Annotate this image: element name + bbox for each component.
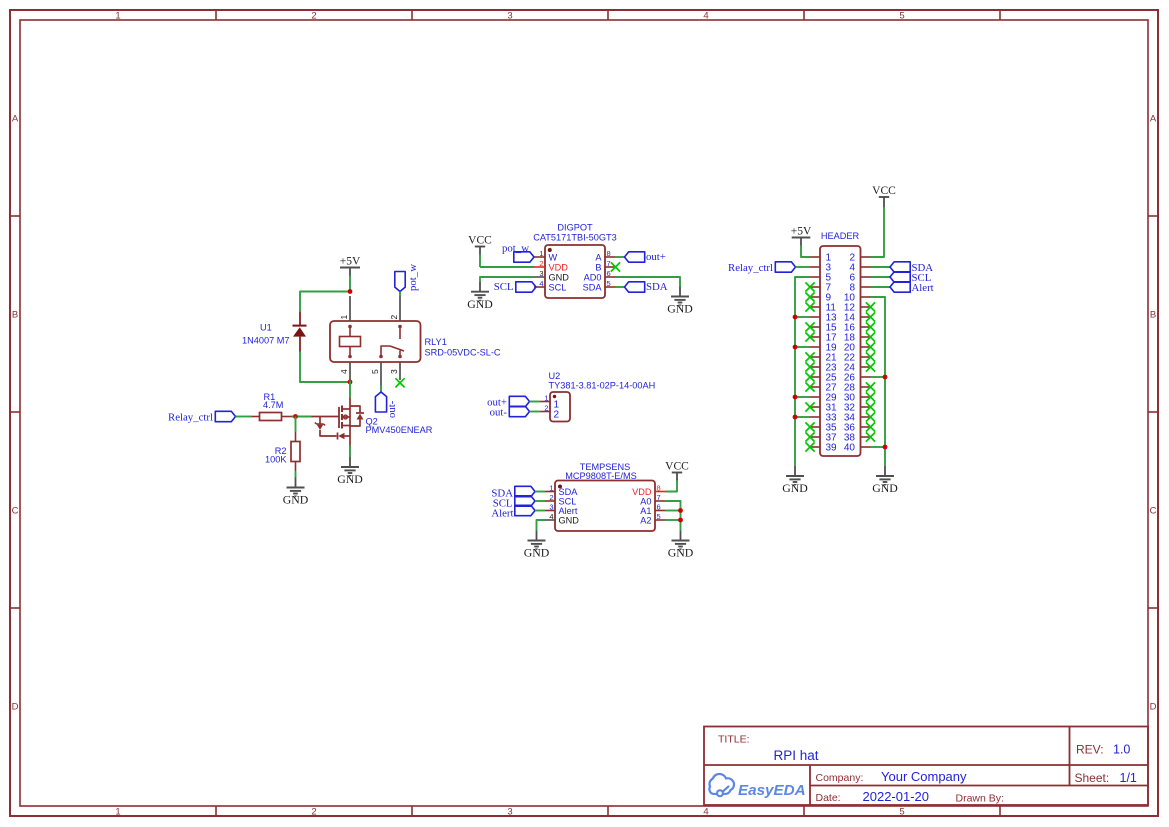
svg-text:VDD: VDD xyxy=(549,262,569,272)
svg-text:Alert: Alert xyxy=(912,282,934,294)
svg-text:4: 4 xyxy=(539,279,543,288)
svg-text:1N4007 M7: 1N4007 M7 xyxy=(242,336,290,346)
svg-text:A0: A0 xyxy=(640,496,651,506)
svg-text:SCL: SCL xyxy=(549,282,567,292)
svg-text:GND: GND xyxy=(549,272,570,282)
svg-text:5: 5 xyxy=(657,512,661,521)
svg-text:Your Company: Your Company xyxy=(881,769,967,784)
svg-text:1: 1 xyxy=(115,11,120,22)
svg-text:4: 4 xyxy=(703,807,708,818)
svg-text:39: 39 xyxy=(826,443,838,454)
svg-text:2: 2 xyxy=(544,404,548,413)
svg-text:W: W xyxy=(549,252,558,262)
svg-text:SRD-05VDC-SL-C: SRD-05VDC-SL-C xyxy=(425,347,501,357)
svg-text:C: C xyxy=(12,506,19,517)
svg-text:VCC: VCC xyxy=(468,235,492,247)
svg-text:1: 1 xyxy=(339,315,349,320)
svg-text:SCL: SCL xyxy=(494,281,514,293)
svg-text:SDA: SDA xyxy=(583,282,603,292)
svg-text:2: 2 xyxy=(311,11,316,22)
svg-text:D: D xyxy=(1150,702,1157,713)
svg-text:GND: GND xyxy=(782,481,808,495)
svg-text:DIGPOT: DIGPOT xyxy=(557,223,593,233)
svg-text:TY381-3.81-02P-14-00AH: TY381-3.81-02P-14-00AH xyxy=(549,381,656,391)
svg-text:Alert: Alert xyxy=(559,506,578,516)
svg-text:pot_w: pot_w xyxy=(502,242,529,254)
svg-text:GND: GND xyxy=(668,546,694,560)
svg-text:7: 7 xyxy=(657,493,661,502)
svg-text:GND: GND xyxy=(337,472,363,486)
svg-text:4: 4 xyxy=(549,512,553,521)
svg-text:HEADER: HEADER xyxy=(821,231,860,241)
svg-text:6: 6 xyxy=(657,503,661,512)
svg-text:3: 3 xyxy=(549,503,553,512)
svg-text:D: D xyxy=(12,702,19,713)
svg-text:4: 4 xyxy=(703,11,708,22)
svg-text:out-: out- xyxy=(386,400,398,418)
svg-text:EasyEDA: EasyEDA xyxy=(738,782,806,799)
svg-text:2: 2 xyxy=(311,807,316,818)
svg-text:Sheet:: Sheet: xyxy=(1075,771,1110,785)
svg-text:VDD: VDD xyxy=(632,487,652,497)
svg-text:A1: A1 xyxy=(640,506,651,516)
svg-text:1: 1 xyxy=(544,394,548,403)
svg-text:GND: GND xyxy=(283,493,309,507)
svg-text:40: 40 xyxy=(844,443,856,454)
svg-text:A: A xyxy=(1150,114,1157,125)
svg-text:A: A xyxy=(12,114,19,125)
svg-text:B: B xyxy=(595,262,601,272)
svg-text:GND: GND xyxy=(667,302,693,316)
svg-text:5: 5 xyxy=(607,279,611,288)
svg-text:A2: A2 xyxy=(640,515,651,525)
svg-text:SDA: SDA xyxy=(646,281,668,293)
svg-text:U1: U1 xyxy=(260,323,272,333)
svg-text:2022-01-20: 2022-01-20 xyxy=(863,789,930,804)
svg-text:GND: GND xyxy=(524,546,550,560)
svg-text:SDA: SDA xyxy=(559,487,579,497)
svg-text:8: 8 xyxy=(607,249,611,258)
svg-text:4: 4 xyxy=(339,369,349,374)
svg-text:Relay_ctrl: Relay_ctrl xyxy=(728,262,773,274)
svg-text:U2: U2 xyxy=(549,371,561,381)
svg-text:REV:: REV: xyxy=(1076,743,1104,757)
svg-text:1/1: 1/1 xyxy=(1120,771,1137,785)
svg-text:CAT5171TBI-50GT3: CAT5171TBI-50GT3 xyxy=(533,232,617,242)
svg-text:3: 3 xyxy=(507,11,512,22)
svg-text:5: 5 xyxy=(899,807,904,818)
svg-text:Company:: Company: xyxy=(816,772,864,784)
svg-text:VCC: VCC xyxy=(665,461,689,473)
svg-text:7: 7 xyxy=(607,259,611,268)
svg-text:1: 1 xyxy=(539,249,543,258)
svg-text:6: 6 xyxy=(607,269,611,278)
svg-text:2: 2 xyxy=(549,493,553,502)
svg-text:Alert: Alert xyxy=(491,508,513,520)
svg-text:MCP9808T-E/MS: MCP9808T-E/MS xyxy=(565,471,636,481)
svg-text:+5V: +5V xyxy=(791,226,812,238)
svg-text:Relay_ctrl: Relay_ctrl xyxy=(168,412,213,424)
svg-text:4.7M: 4.7M xyxy=(263,400,283,410)
svg-text:3: 3 xyxy=(389,369,399,374)
svg-text:RPI hat: RPI hat xyxy=(774,748,819,763)
svg-text:SCL: SCL xyxy=(559,496,577,506)
svg-text:Date:: Date: xyxy=(816,792,841,804)
svg-text:1: 1 xyxy=(115,807,120,818)
svg-text:GND: GND xyxy=(872,481,898,495)
svg-text:out+: out+ xyxy=(646,251,666,263)
svg-text:+5V: +5V xyxy=(340,256,361,268)
svg-text:100K: 100K xyxy=(265,455,287,465)
svg-text:C: C xyxy=(1150,506,1157,517)
svg-text:GND: GND xyxy=(467,297,493,311)
svg-text:A: A xyxy=(595,252,602,262)
svg-text:5: 5 xyxy=(370,369,380,374)
svg-text:1: 1 xyxy=(549,484,553,493)
svg-text:out-: out- xyxy=(490,407,508,419)
svg-text:3: 3 xyxy=(539,269,543,278)
svg-text:pot_w: pot_w xyxy=(407,264,419,291)
svg-text:TITLE:: TITLE: xyxy=(718,734,750,746)
svg-text:5: 5 xyxy=(899,11,904,22)
svg-text:RLY1: RLY1 xyxy=(425,337,447,347)
svg-text:Drawn By:: Drawn By: xyxy=(956,793,1004,805)
svg-text:2: 2 xyxy=(554,410,560,421)
svg-text:VCC: VCC xyxy=(872,185,896,197)
svg-text:2: 2 xyxy=(539,259,543,268)
svg-text:B: B xyxy=(12,310,18,321)
svg-text:PMV450ENEAR: PMV450ENEAR xyxy=(366,425,433,435)
svg-text:AD0: AD0 xyxy=(584,272,602,282)
svg-text:3: 3 xyxy=(507,807,512,818)
svg-text:8: 8 xyxy=(657,484,661,493)
svg-text:1.0: 1.0 xyxy=(1113,743,1130,757)
svg-text:B: B xyxy=(1150,310,1156,321)
svg-text:GND: GND xyxy=(559,515,580,525)
svg-text:2: 2 xyxy=(389,315,399,320)
